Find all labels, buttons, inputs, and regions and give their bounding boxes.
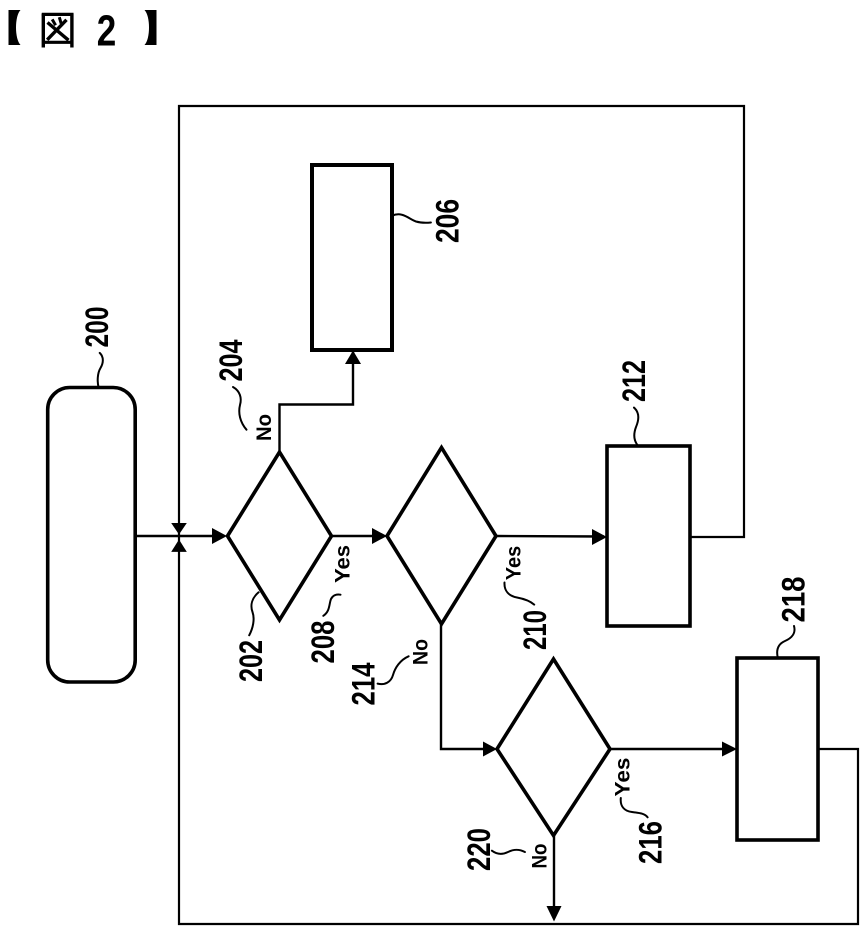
svg-text:Yes: Yes (503, 546, 526, 581)
svg-text:208: 208 (305, 621, 341, 664)
svg-text:No: No (410, 639, 433, 665)
svg-text:214: 214 (346, 662, 382, 705)
svg-text:212: 212 (616, 360, 652, 402)
svg-text:206: 206 (430, 199, 466, 243)
svg-text:220: 220 (461, 828, 497, 871)
svg-text:204: 204 (213, 339, 249, 381)
svg-text:2: 2 (97, 7, 117, 56)
svg-text:202: 202 (233, 640, 269, 682)
svg-text:Yes: Yes (612, 758, 635, 797)
svg-text:No: No (529, 844, 552, 869)
svg-text:200: 200 (79, 307, 115, 348)
svg-text:210: 210 (517, 610, 553, 650)
svg-text:218: 218 (776, 577, 812, 623)
svg-text:216: 216 (633, 821, 669, 864)
svg-text:Yes: Yes (332, 545, 355, 583)
svg-text:No: No (253, 414, 276, 441)
